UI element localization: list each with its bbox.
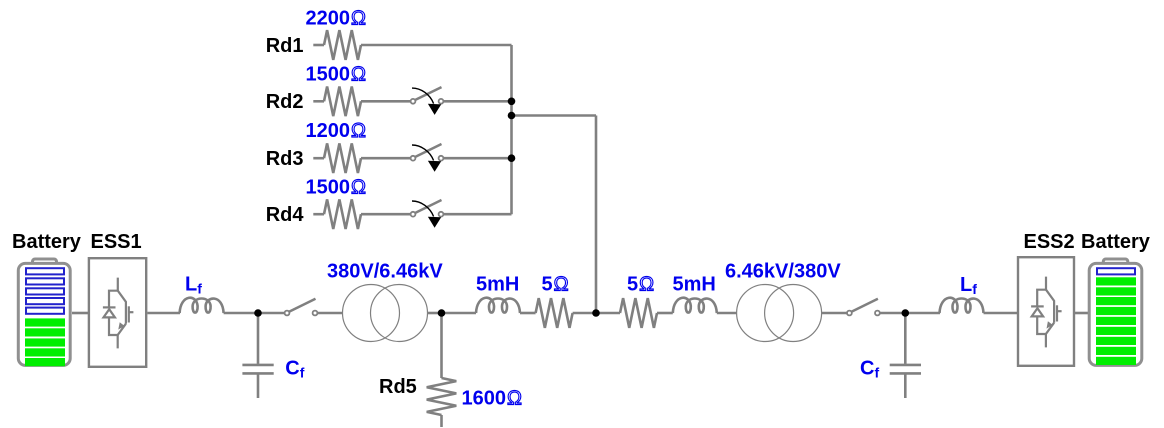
- svg-text:Rd5: Rd5: [379, 376, 417, 398]
- wire L1 to R1: [520, 312, 536, 315]
- svg-text:ESS1: ESS1: [91, 231, 142, 253]
- svg-text:5mH: 5mH: [476, 274, 519, 296]
- node B dot: [438, 309, 446, 317]
- svg-text:ESS2: ESS2: [1024, 231, 1075, 253]
- wire Rd2 to switch: [361, 100, 411, 103]
- wire Rd4 to switch: [361, 213, 411, 216]
- svg-text:5mH: 5mH: [673, 274, 716, 296]
- svg-text:5Ω: 5Ω: [627, 274, 654, 296]
- inductor L2 5mH: [673, 298, 717, 313]
- node A dot: [254, 309, 262, 317]
- wire Rd2 lead: [313, 100, 324, 103]
- capacitor Cf1: [242, 313, 273, 398]
- wire T1 to node B: [428, 312, 442, 315]
- wire bus vertical: [510, 45, 513, 214]
- wire ESS1 to Lf1: [147, 312, 180, 315]
- wire T2 to switch2: [821, 312, 847, 315]
- wire switch1 to T1: [318, 312, 343, 315]
- svg-text:1500Ω: 1500Ω: [306, 64, 367, 86]
- switch SW3: [411, 144, 444, 172]
- svg-text:1600Ω: 1600Ω: [462, 388, 523, 410]
- resistor Rd4: [324, 199, 361, 229]
- transformer T1: [343, 285, 428, 342]
- switch SW2: [411, 87, 444, 115]
- battery B1: [18, 259, 70, 366]
- wire R1 to node C: [573, 312, 596, 315]
- converter ESS2 box: [1018, 257, 1074, 366]
- svg-text:1500Ω: 1500Ω: [306, 177, 367, 199]
- svg-text:Cf: Cf: [285, 358, 304, 381]
- wire node A to switch1: [258, 312, 285, 315]
- node dot Rd2-bus: [508, 98, 516, 106]
- inductor L1 5mH: [476, 298, 520, 313]
- wire ESS2 to battery2: [1075, 312, 1088, 315]
- resistor R1 5ohm: [536, 298, 573, 328]
- node D dot: [902, 309, 910, 317]
- node dot branch: [508, 112, 516, 120]
- wire switch2 to node D: [880, 312, 905, 315]
- inductor Lf2: [940, 298, 984, 313]
- capacitor Cf2: [890, 313, 921, 398]
- wire Rd4 lead: [313, 213, 324, 216]
- wire Rd5 bottom: [440, 415, 443, 427]
- svg-text:Battery: Battery: [1081, 231, 1151, 253]
- IGBT U1: [103, 278, 133, 349]
- svg-text:Rd2: Rd2: [266, 91, 304, 113]
- wire Rd3 lead: [313, 157, 324, 160]
- svg-text:Lf: Lf: [185, 274, 202, 297]
- node dot Rd3-bus: [508, 154, 516, 162]
- wire Lf2 to ESS2: [984, 312, 1018, 315]
- resistor R2 5ohm: [620, 298, 657, 328]
- wire L2 to T2: [717, 312, 737, 315]
- resistor Rd1: [324, 30, 361, 60]
- svg-text:1200Ω: 1200Ω: [306, 120, 367, 142]
- switch S2: [847, 299, 880, 316]
- node C dot: [592, 309, 600, 317]
- svg-text:Rd3: Rd3: [266, 148, 304, 170]
- wire R2 to L2: [657, 312, 673, 315]
- wire Lf1 to node A: [224, 312, 258, 315]
- svg-text:380V/6.46kV: 380V/6.46kV: [327, 260, 443, 282]
- svg-text:Cf: Cf: [860, 358, 879, 381]
- resistor Rd2: [324, 87, 361, 117]
- battery B2: [1089, 259, 1142, 365]
- IGBT U2: [1031, 277, 1062, 348]
- inductor Lf1: [180, 298, 224, 313]
- svg-text:Rd4: Rd4: [266, 204, 305, 226]
- wire battery1 to ESS1: [72, 312, 88, 315]
- wire switch2 to bus: [444, 100, 512, 103]
- switch SW4: [411, 200, 444, 228]
- resistor Rd3: [324, 143, 361, 173]
- wire branch vertical: [595, 116, 598, 314]
- transformer T2: [737, 285, 822, 342]
- wire node B to L1: [442, 312, 477, 315]
- wire Rd1 to bus: [361, 44, 512, 47]
- svg-text:6.46kV/380V: 6.46kV/380V: [725, 260, 841, 282]
- wire Rd1 lead: [313, 44, 324, 47]
- svg-text:Lf: Lf: [960, 274, 977, 297]
- switch S1: [285, 299, 318, 316]
- wire node D to Lf2: [905, 312, 940, 315]
- svg-text:Rd1: Rd1: [266, 35, 304, 57]
- svg-text:Battery: Battery: [12, 231, 82, 253]
- wire Rd3 to switch: [361, 157, 411, 160]
- resistor Rd5: [427, 378, 457, 415]
- wire Rd5 top: [440, 313, 443, 378]
- wire node C to R2: [596, 312, 620, 315]
- svg-text:5Ω: 5Ω: [542, 274, 569, 296]
- converter ESS1 box: [89, 258, 146, 367]
- svg-text:2200Ω: 2200Ω: [306, 8, 367, 30]
- wire switch4 to bus: [444, 213, 512, 216]
- wire switch3 to bus: [444, 157, 512, 160]
- wire branch horizontal: [512, 114, 597, 117]
